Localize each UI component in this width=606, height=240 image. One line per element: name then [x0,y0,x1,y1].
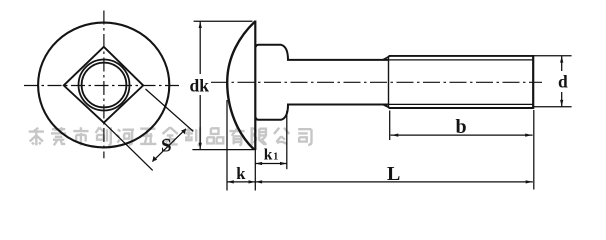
svg-text:1: 1 [273,151,278,162]
svg-text:L: L [387,163,400,185]
shank top line [287,59,389,61]
centerline vertical (front view) [103,11,105,159]
shank thread minor circle (front view) [82,63,127,108]
bolt end face [532,55,534,109]
svg-text:S: S [161,136,172,157]
svg-text:b: b [456,116,467,138]
square neck profile top [256,45,288,60]
svg-text:k: k [264,146,273,163]
b dimension line [391,134,533,136]
k left extension line [226,100,228,191]
k1 dimension line [255,163,286,165]
k dimension line [227,181,255,183]
thread major bottom line [389,107,534,109]
S extension line from bottom vertex [104,123,153,171]
watermark company text [29,127,312,145]
square neck profile bottom [256,105,288,120]
thread minor bottom line [389,103,533,105]
square neck (front view, rotated square) [64,47,144,123]
shank thread major circle (front view) [79,60,130,111]
shank bottom line [287,104,389,106]
svg-text:dk: dk [190,76,210,96]
bolt head dome [227,21,255,149]
right extension line (b and L) [533,110,535,190]
S dimension line [152,129,186,162]
bolt head face [254,21,256,151]
d top extension line [534,55,572,57]
S extension line from right vertex [146,89,194,131]
svg-text:d: d [558,72,568,92]
thread runout chamfer top [383,56,390,60]
svg-text:k: k [236,164,246,183]
head outer circle (front view) [38,23,169,148]
centerline horizontal (front view) [24,11,181,159]
dk dimension line [199,21,201,149]
thread minor top line [389,59,533,61]
L dimension line [255,181,533,183]
thread runout chamfer bottom [383,104,390,108]
thread major top line [389,55,534,57]
dk top extension line [194,20,253,22]
head face extension line [254,150,256,191]
k1 right extension line [286,111,288,169]
b left extension line [389,111,391,141]
d dimension line [561,56,563,107]
centerline of bolt axis [211,81,542,83]
thread start vertical [388,56,390,108]
d bottom extension line [534,106,572,108]
dk bottom extension line [192,149,254,151]
